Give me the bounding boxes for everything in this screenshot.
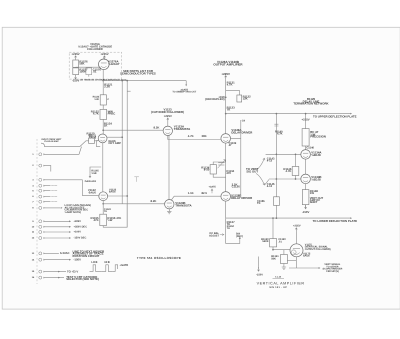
- wire: [305, 159, 307, 174]
- svg-text:—·—: —·—: [51, 195, 57, 198]
- svg-text:4.7K: 4.7K: [93, 112, 99, 116]
- wire gain wiper: [90, 167, 101, 174]
- wire: [45, 252, 59, 254]
- junction: [305, 113, 307, 115]
- wire: [305, 205, 307, 209]
- capacitor C1576: [86, 68, 92, 75]
- svg-text:-150V: -150V: [302, 210, 310, 214]
- resistor R1153: [281, 255, 288, 264]
- resistor R1156: [100, 214, 107, 225]
- power +225V: [225, 76, 227, 80]
- test point tick: [134, 177, 139, 182]
- wire V1123B plate to V1128B: [171, 196, 221, 200]
- svg-text:-150V: -150V: [74, 257, 82, 261]
- tube V1123B: [165, 200, 174, 209]
- resistor R1120: [89, 138, 95, 143]
- wire grid V1175: [273, 249, 290, 251]
- tube V1128B: [221, 192, 231, 202]
- svg-text:GAIN ADJ: GAIN ADJ: [85, 180, 97, 183]
- wire vert sig out: [289, 267, 319, 269]
- tube V1128A: [221, 134, 231, 144]
- tube V1134B: [301, 174, 311, 184]
- junction: [126, 80, 128, 82]
- svg-text:—·—: —·—: [51, 189, 57, 192]
- arrowhead vert sig out: [319, 267, 321, 269]
- svg-text:39K: 39K: [202, 134, 207, 138]
- wire: [213, 174, 226, 177]
- svg-text:8-50: 8-50: [204, 168, 210, 172]
- connector pin at y=185.7: [39, 184, 45, 187]
- svg-text:C1136: C1136: [232, 185, 240, 189]
- wire: [102, 201, 104, 204]
- ground R1153: [282, 265, 286, 270]
- connector pin at y=259.7: [39, 258, 45, 261]
- junction pickoff bottom: [276, 217, 278, 219]
- svg-text:4-12: 4-12: [267, 185, 273, 188]
- wire: [45, 271, 66, 273]
- svg-text:ON TIMEBASE CHASSIS: ON TIMEBASE CHASSIS: [80, 78, 105, 81]
- junction: [121, 136, 123, 138]
- svg-text:6AU6: 6AU6: [303, 255, 310, 258]
- potentiometer R1152 wiper arrow: [220, 234, 224, 236]
- wire: [185, 81, 187, 86]
- connector pin at y=196.6: [39, 195, 45, 198]
- svg-text:TRANSISTA: TRANSISTA: [175, 203, 192, 207]
- svg-text:150K: 150K: [79, 69, 86, 73]
- junction: [126, 195, 128, 197]
- wire interstage: [168, 135, 170, 200]
- connector pin at y=154.3: [39, 153, 45, 156]
- wire: [45, 231, 70, 233]
- wire: [45, 277, 64, 279]
- arrow: [69, 226, 71, 228]
- tube V1576A triode: [99, 59, 110, 70]
- coax input J1: [41, 143, 45, 147]
- wire: [305, 184, 307, 190]
- svg-text:TO SWEEP TRIG CKT: TO SWEEP TRIG CKT: [172, 91, 196, 94]
- wire -150V: [258, 257, 260, 269]
- resistor R1144: [302, 129, 309, 146]
- svg-text:HI B: HI B: [105, 261, 110, 264]
- junction: [225, 113, 227, 115]
- junction: [276, 153, 278, 155]
- bus wire A: [121, 81, 123, 204]
- wire plate to +225V: [103, 56, 105, 59]
- svg-text:4.7K: 4.7K: [286, 169, 292, 173]
- wire: [283, 264, 285, 265]
- wire: [45, 226, 70, 228]
- svg-text:+GATE: +GATE: [208, 186, 216, 189]
- svg-text:TO UPPER DEFLECTION PLATE: TO UPPER DEFLECTION PLATE: [313, 114, 357, 118]
- connector pin at y=221.3: [39, 220, 45, 223]
- svg-text:6AU6: 6AU6: [89, 190, 97, 194]
- arrowhead down: [185, 84, 187, 86]
- rule under A 1.43: [273, 277, 285, 279]
- resistor R1146: [292, 167, 299, 176]
- power +225V: [75, 56, 77, 60]
- connector pin at y=232: [39, 231, 45, 234]
- connector pin at y=253.4: [39, 252, 45, 255]
- svg-text:SIG OUT: SIG OUT: [246, 169, 258, 173]
- wire stub: [45, 201, 51, 203]
- wire grid of V1576A: [76, 66, 101, 68]
- junction: [295, 178, 297, 180]
- svg-text:-150V DEC: -150V DEC: [74, 237, 87, 240]
- junction: [272, 217, 274, 219]
- resistor R1132: [237, 95, 242, 102]
- svg-text:1.2K: 1.2K: [94, 98, 99, 101]
- svg-text:4.7K: 4.7K: [227, 83, 233, 87]
- power +225V: [104, 56, 106, 60]
- svg-text:2.2K: 2.2K: [104, 85, 110, 89]
- svg-text:8.2K: 8.2K: [154, 126, 160, 130]
- waveform pulse 1: [90, 265, 102, 272]
- junction: [272, 249, 274, 251]
- wire to V1134B grid: [269, 178, 301, 180]
- svg-text:SELECTOR (SEE NOTE): SELECTOR (SEE NOTE): [66, 277, 99, 281]
- svg-text:-150V: -150V: [72, 79, 80, 83]
- svg-text:6AU6: 6AU6: [109, 191, 116, 194]
- svg-text:½W: ½W: [107, 218, 112, 222]
- svg-text:1K: 1K: [104, 124, 108, 128]
- svg-text:C1140: C1140: [306, 146, 314, 149]
- svg-text:56K: 56K: [271, 258, 276, 261]
- wire plate V1123A: [167, 122, 169, 126]
- svg-text:12K: 12K: [243, 97, 248, 101]
- wire +gate output: [103, 80, 186, 82]
- wire feedback loop: [103, 204, 127, 227]
- junction: [225, 96, 227, 98]
- wire cathode tap: [287, 259, 296, 261]
- junction: [102, 129, 104, 131]
- wire cathode down: [295, 257, 297, 268]
- wire grid V1123A: [103, 129, 163, 131]
- wire grid V1123B: [103, 203, 165, 205]
- wire: [75, 59, 77, 61]
- svg-text:TK: TK: [257, 202, 261, 205]
- wire cathode chain: [102, 143, 104, 192]
- svg-text:VERTICAL AMPLIFIER: VERTICAL AMPLIFIER: [257, 281, 305, 285]
- svg-text:OUTPUT AMPLIFIER: OUTPUT AMPLIFIER: [213, 63, 243, 67]
- pot wiper arrow: [89, 174, 91, 178]
- waveform pulse 3: [112, 265, 118, 272]
- power -150V: [305, 205, 307, 209]
- gate marker arrow on V1128B grid wire: [211, 189, 213, 193]
- svg-text:4.7K: 4.7K: [188, 134, 194, 138]
- wire lower deflection rail: [226, 217, 350, 219]
- svg-text:1.5K: 1.5K: [91, 172, 96, 175]
- wire pickoff: [275, 114, 277, 197]
- wire branch: [226, 90, 240, 95]
- svg-text:4.7K: 4.7K: [277, 132, 283, 135]
- svg-text:ADJUST: ADJUST: [209, 235, 219, 238]
- wire: [272, 218, 274, 239]
- capacitor C1141 on pickoff line: [274, 124, 278, 126]
- svg-text:—·—: —·—: [51, 200, 57, 203]
- wire: [283, 250, 285, 255]
- arrow: [69, 259, 71, 261]
- svg-text:82.5: 82.5: [202, 191, 208, 195]
- connector pin at y=201.7: [39, 200, 45, 203]
- wire bus tick: [127, 90, 130, 92]
- wire dc bal loop: [226, 218, 240, 243]
- wire V1121 plate to bus A: [107, 136, 122, 138]
- svg-text:+350V DEC: +350V DEC: [74, 226, 88, 229]
- wire: [75, 74, 77, 77]
- power +225V: [167, 118, 169, 122]
- svg-text:+100V: +100V: [74, 231, 82, 234]
- arrow: [69, 220, 71, 222]
- wire: [295, 176, 297, 180]
- svg-text:LO B: LO B: [91, 261, 97, 264]
- junction: [121, 80, 123, 82]
- svg-text:TK: TK: [227, 108, 231, 112]
- wire V1122 plate to bus B: [108, 195, 128, 197]
- svg-text:(CATHODE FOLLOWER): (CATHODE FOLLOWER): [151, 110, 184, 114]
- resistor R1577: [73, 68, 79, 75]
- chassis dashed boundary: [36, 139, 38, 284]
- svg-text:1.1K: 1.1K: [188, 191, 194, 195]
- wire V1123A cathode to V1128A: [168, 136, 221, 140]
- tube V1134A: [301, 150, 311, 160]
- wire joins input: [45, 147, 82, 155]
- connector pin at y=165.6: [39, 164, 45, 167]
- arrow: [58, 271, 60, 273]
- svg-text:DELAY DRIVER: DELAY DRIVER: [231, 131, 252, 135]
- wire plate loop: [231, 138, 241, 196]
- tube V1122 6AU6: [99, 192, 108, 201]
- svg-text:SEMICONDUCTOR TYPES: SEMICONDUCTOR TYPES: [120, 72, 156, 76]
- arrow: [58, 277, 60, 279]
- wire: [75, 66, 77, 69]
- arrow: [69, 231, 71, 233]
- svg-text:PLUG-IN AMP: PLUG-IN AMP: [44, 140, 59, 143]
- variable capacitor C1134: [218, 160, 226, 168]
- wire between V1128A V1128B: [225, 143, 227, 192]
- resistor R1123: [100, 109, 107, 119]
- svg-text:TERMINATION NETWORK: TERMINATION NETWORK: [293, 102, 329, 106]
- wire cathode hook: [96, 141, 100, 147]
- svg-text:PREC: PREC: [108, 112, 116, 116]
- svg-text:½6DJ8: ½6DJ8: [311, 153, 321, 157]
- wire: [213, 162, 226, 165]
- arrow: [61, 207, 63, 209]
- svg-text:S/N 101 - UP: S/N 101 - UP: [269, 286, 287, 289]
- svg-text:½AMP NOTE): ½AMP NOTE): [65, 211, 82, 214]
- wire: [295, 154, 297, 166]
- svg-text:(DEC): (DEC): [236, 235, 243, 238]
- wire: [45, 207, 60, 209]
- resistor R1147: [274, 197, 280, 206]
- svg-text:SHIFT: SHIFT: [310, 201, 318, 204]
- wire: [45, 220, 70, 222]
- wire: [275, 205, 277, 218]
- bus wire B: [126, 81, 128, 228]
- svg-text:TK: TK: [104, 210, 107, 213]
- tube inner circle: [291, 250, 296, 255]
- wire: [102, 204, 104, 214]
- svg-text:TRANSISTA: TRANSISTA: [174, 127, 191, 131]
- junction pot tap: [239, 237, 241, 239]
- power -150V: [75, 75, 77, 79]
- wire: [102, 119, 104, 134]
- arrow: [69, 237, 71, 239]
- junction: [102, 203, 104, 205]
- wire: [88, 75, 90, 77]
- wire upper deflection rail: [226, 113, 350, 115]
- junction: [276, 178, 278, 180]
- svg-text:+GATE: +GATE: [120, 264, 129, 267]
- wire stub: [45, 190, 51, 192]
- svg-text:A 1.43: A 1.43: [275, 276, 282, 279]
- power -150V: [258, 267, 260, 271]
- svg-text:+225V: +225V: [74, 220, 82, 223]
- svg-text:1K: 1K: [89, 134, 93, 138]
- wire stub: [45, 185, 51, 187]
- wire V1128B cathode: [225, 201, 227, 218]
- svg-text:8.2K: 8.2K: [151, 199, 157, 203]
- dashed enclosure (on timebase chassis): [69, 52, 122, 79]
- wire: [272, 247, 274, 250]
- resistor R1150: [270, 239, 277, 247]
- svg-text:TO LOWER DEFLECTION PLATE: TO LOWER DEFLECTION PLATE: [313, 219, 357, 223]
- svg-text:56K: 56K: [79, 61, 84, 65]
- connector pin at y=207.9: [39, 206, 45, 209]
- tube V1175 output cathode follower: [290, 244, 303, 257]
- wire: [305, 146, 307, 150]
- wire stub: [45, 196, 51, 198]
- junction pickoff top: [276, 113, 278, 115]
- svg-text:FOLLOWER: FOLLOWER: [87, 48, 102, 51]
- svg-text:CRT AMP: CRT AMP: [108, 141, 121, 145]
- svg-text:OUTPUT FOLLOWER): OUTPUT FOLLOWER): [305, 248, 331, 251]
- wire: [102, 105, 104, 109]
- svg-text:(DECOUPLED): (DECOUPLED): [205, 97, 224, 101]
- wire cathode of V1576A: [102, 70, 104, 81]
- pickoff diagonal arrow lower: [256, 173, 269, 185]
- svg-text:TYPE 551 OSCILLOSCOPE: TYPE 551 OSCILLOSCOPE: [137, 256, 181, 260]
- svg-text:470: 470: [226, 171, 231, 175]
- svg-text:TO ·63 V: TO ·63 V: [67, 269, 78, 273]
- arrowhead lower rail: [350, 217, 352, 219]
- wire stub: [45, 166, 51, 172]
- svg-text:ROTATION CIRCUIT: ROTATION CIRCUIT: [73, 254, 100, 258]
- resistor R1576: [73, 60, 79, 67]
- svg-text:.01: .01: [278, 241, 282, 244]
- wire to V1134A grid: [266, 153, 301, 155]
- power +225V: [295, 228, 297, 232]
- svg-text:4-12: 4-12: [267, 160, 273, 163]
- svg-text:560K: 560K: [262, 240, 268, 243]
- svg-text:47K: 47K: [93, 218, 98, 222]
- svg-text:CIRCUIT(S): CIRCUIT(S): [326, 270, 339, 273]
- svg-text:6.3VAC: 6.3VAC: [60, 251, 70, 255]
- junction: [295, 153, 297, 155]
- wire: [45, 237, 70, 239]
- svg-text:TK: TK: [227, 227, 230, 230]
- resistor R1122: [100, 95, 106, 105]
- tube V1123A: [163, 126, 172, 135]
- svg-text:+225V: +225V: [293, 224, 301, 227]
- arrowhead upper rail: [350, 113, 352, 115]
- resistor R1134: [210, 165, 216, 174]
- waveform pulse 2: [101, 265, 112, 272]
- wire grid: [94, 140, 98, 142]
- connector pin at y=190.7: [39, 189, 45, 192]
- junction: [102, 80, 104, 82]
- svg-text:.01: .01: [93, 69, 97, 73]
- ground V1123B: [167, 209, 171, 214]
- connector pin at y=277.6: [39, 276, 45, 279]
- connector pin at y=238: [39, 237, 45, 240]
- tube V1121 6AU6: [98, 134, 107, 143]
- svg-text:½12AU7: ½12AU7: [108, 62, 120, 66]
- wire input: [45, 141, 89, 147]
- connector pin at y=179.8: [39, 178, 45, 181]
- wire plate loop upper: [240, 120, 242, 138]
- svg-text:1W: 1W: [310, 191, 315, 195]
- svg-text:½6DJ8: ½6DJ8: [311, 178, 321, 182]
- svg-text:-150V: -150V: [256, 273, 263, 276]
- connector pin at y=226.8: [39, 225, 45, 228]
- wire: [305, 114, 307, 129]
- svg-text:—·—: —·—: [51, 184, 57, 187]
- pickoff diagonal arrow upper: [256, 158, 265, 170]
- wire: [45, 259, 70, 261]
- wire plate V1175: [295, 232, 297, 244]
- resistor R1148: [302, 190, 309, 205]
- wire to V1122 grid: [45, 180, 99, 196]
- wire +225V feed: [225, 80, 227, 134]
- wire: [102, 81, 104, 95]
- svg-text:PRECISION: PRECISION: [310, 134, 326, 138]
- connector pin at y=271.6: [39, 270, 45, 273]
